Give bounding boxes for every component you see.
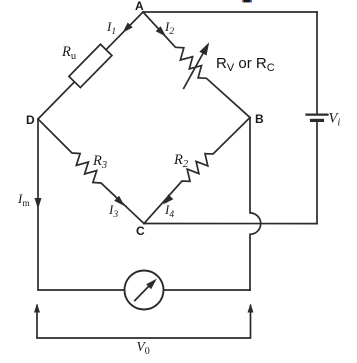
wire: D down left side to bottom-left corner bbox=[38, 119, 124, 290]
svg-text:RV or RC: RV or RC bbox=[216, 55, 275, 74]
current arrow I3 bbox=[114, 196, 124, 206]
wire: battery to bottom-right corner bbox=[316, 122, 318, 224]
svg-text:B: B bbox=[255, 112, 264, 126]
resistor Ru (box) bbox=[69, 44, 112, 87]
variable resistor arrow bbox=[184, 53, 204, 89]
wire + resistor R3 (arm D to C) bbox=[38, 119, 144, 224]
cropped heading mark bbox=[242, 0, 252, 2]
svg-text:I1: I1 bbox=[106, 19, 116, 37]
current arrow I2 bbox=[156, 26, 166, 36]
galvanometer bbox=[125, 271, 164, 310]
wire: A to top-right corner bbox=[143, 11, 317, 13]
current arrow I4 bbox=[163, 194, 173, 204]
svg-text:Im: Im bbox=[17, 191, 30, 209]
battery Vi bbox=[307, 115, 328, 121]
svg-text:R2: R2 bbox=[173, 152, 189, 170]
svg-text:V0: V0 bbox=[137, 339, 150, 357]
svg-text:I3: I3 bbox=[108, 202, 118, 220]
wire: bottom-right corner to node C bbox=[144, 223, 317, 225]
wire: arm A to D bbox=[38, 12, 143, 119]
current arrow Im bbox=[35, 198, 42, 209]
svg-text:C: C bbox=[136, 224, 145, 238]
svg-text:R3: R3 bbox=[92, 153, 107, 171]
svg-text:I2: I2 bbox=[164, 19, 174, 37]
wire: B down with crossover hop bbox=[250, 118, 261, 291]
svg-text:I4: I4 bbox=[164, 202, 174, 220]
svg-text:A: A bbox=[135, 0, 144, 13]
svg-text:Ru: Ru bbox=[61, 44, 77, 62]
svg-text:D: D bbox=[26, 113, 35, 127]
wire + resistor R2 (arm B to C) bbox=[144, 118, 250, 224]
wire: galvanometer to B branch bbox=[164, 289, 250, 291]
svg-text:Vi: Vi bbox=[329, 111, 341, 129]
wire: right side down to battery top plate bbox=[316, 12, 318, 114]
wire + variable resistor RV (arm A to B) bbox=[143, 12, 250, 118]
current arrow I1 bbox=[123, 23, 133, 33]
V0 measurement bracket bbox=[37, 306, 251, 339]
